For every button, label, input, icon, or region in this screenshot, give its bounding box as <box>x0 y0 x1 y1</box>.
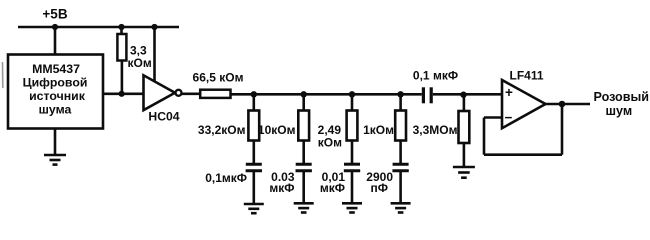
wire tap2 down <box>302 94 305 110</box>
svg-text:мкФ: мкФ <box>269 181 294 195</box>
node tap 1 dot <box>251 91 257 97</box>
wire op-amp output <box>546 103 591 106</box>
value label 10кОм <box>258 123 296 137</box>
label HC04 <box>148 110 179 124</box>
wire tap3 down <box>351 94 354 110</box>
svg-text:шума: шума <box>39 103 72 117</box>
ground symbol under MM5437 <box>44 155 66 165</box>
ground symbol under 3,3МОм <box>453 167 475 178</box>
node tap 3 dot <box>349 91 355 97</box>
svg-text:+: + <box>505 85 513 100</box>
capacitor 0.03мкФ shunt <box>296 164 312 171</box>
ground symbol branch3 <box>342 203 362 212</box>
svg-text:кОм: кОм <box>318 135 342 149</box>
wire R 3,3МОм to ground <box>463 143 466 167</box>
label MM5437 Цифровой источник шума <box>23 62 88 117</box>
capacitor 0,01мкФ shunt <box>344 164 360 171</box>
wire R2 bottom to C2 <box>302 141 305 164</box>
wire R1 bottom to C1 <box>253 141 256 164</box>
value label 33,2кОм <box>198 123 246 137</box>
svg-text:3,3МОм: 3,3МОм <box>413 123 458 137</box>
svg-text:кОм: кОм <box>128 56 152 70</box>
capacitor 0,1мкФ shunt <box>246 164 262 171</box>
node tap 4 dot <box>397 91 403 97</box>
svg-text:MM5437: MM5437 <box>32 62 80 76</box>
wire HC04 output to R 66,5кОм <box>182 93 201 96</box>
wire C1 bottom to ground <box>253 172 256 204</box>
wire feedback up to − input <box>483 118 486 155</box>
scan artifact left edge <box>2 62 4 88</box>
svg-text:шум: шум <box>606 104 633 118</box>
inverter bubble <box>176 90 182 96</box>
ground symbol branch2 <box>294 203 314 212</box>
node junction dot on +5V at HC04 supply <box>151 24 157 30</box>
svg-text:−: − <box>505 110 513 125</box>
svg-text:Розовый: Розовый <box>594 90 650 104</box>
wire MM5437 bottom to ground <box>54 129 57 156</box>
wire coupling cap to op-amp + input <box>433 93 502 96</box>
svg-text:+5В: +5В <box>42 7 67 22</box>
resistor 66,5кОм series <box>200 90 230 98</box>
wire C2 bottom to ground <box>302 172 305 203</box>
value label 3,3 кОм <box>128 44 152 70</box>
capacitor 0,1мкФ coupling (series) <box>423 87 431 103</box>
value label 2900 пФ <box>366 170 393 195</box>
svg-text:1кОм: 1кОм <box>363 123 394 137</box>
wire +5V down to HC04 supply pin <box>153 27 156 81</box>
svg-text:источник: источник <box>29 89 86 103</box>
svg-text:мкФ: мкФ <box>320 181 345 195</box>
wire R4 bottom to C4 <box>399 141 402 164</box>
capacitor 2900пФ shunt <box>392 164 408 171</box>
wire C4 bottom to ground <box>399 172 402 203</box>
node output junction dot <box>559 101 566 108</box>
resistor 3,3кОм pull-up <box>117 34 126 61</box>
wire R3,3к bottom to HC04 input node <box>121 61 124 94</box>
node junction dot at HC04 input <box>119 91 125 97</box>
svg-text:10кОм: 10кОм <box>258 123 296 137</box>
value label 0,01 мкФ <box>320 170 345 195</box>
svg-text:66,5 кОм: 66,5 кОм <box>193 71 244 85</box>
node junction dot on +5V at MM5437 <box>52 24 58 30</box>
svg-text:33,2кОм: 33,2кОм <box>198 123 246 137</box>
wire tap4 down <box>399 94 402 110</box>
pin − marker <box>505 110 513 125</box>
label +5В <box>42 7 67 22</box>
svg-text:HC04: HC04 <box>148 110 179 124</box>
wire tap1 down <box>253 94 256 110</box>
svg-text:Цифровой: Цифровой <box>23 76 88 90</box>
node junction dot on +5V at R 3,3кОм <box>118 24 124 30</box>
value label 1кОм <box>363 123 394 137</box>
value label 66,5 кОм <box>193 71 244 85</box>
wire feedback bottom run <box>484 153 562 156</box>
resistor 1кОм shunt <box>395 111 406 141</box>
label LF411 <box>510 69 544 83</box>
wire R3 bottom to C3 <box>351 141 354 164</box>
label Розовый шум output <box>594 90 650 118</box>
wire +5V down to MM5437 top <box>54 27 57 55</box>
svg-text:0,1 мкФ: 0,1 мкФ <box>413 69 458 83</box>
IC U1 MM5437 noise source box <box>8 55 103 129</box>
ground symbol branch1 <box>244 204 264 213</box>
node junction dot at op-amp input <box>460 92 466 98</box>
svg-text:пФ: пФ <box>371 181 389 195</box>
wire filter bus A <box>231 93 422 96</box>
wire node down to R 3,3МОм <box>463 94 466 111</box>
wire C3 bottom to ground <box>351 172 354 203</box>
value label 0.03 мкФ <box>269 170 294 195</box>
node tap 2 dot <box>301 91 307 97</box>
resistor 10кОм shunt <box>298 111 309 141</box>
ground symbol branch4 <box>391 203 411 212</box>
wire MM5437 output to HC04 input <box>103 93 144 96</box>
resistor 2,49кОм shunt <box>347 111 358 141</box>
svg-text:LF411: LF411 <box>510 69 544 83</box>
value label 2,49 кОм <box>318 123 342 150</box>
inverter U2 HC04 triangle <box>144 75 176 110</box>
op-amp U3 LF411 triangle <box>502 80 546 128</box>
value label 3,3МОм <box>413 123 458 137</box>
wire +5V down to R 3,3кОм top <box>120 27 123 34</box>
wire feedback into − input <box>484 116 502 119</box>
resistor 3,3МОм bias <box>459 111 470 143</box>
value label 0,1 мкФ <box>413 69 458 83</box>
net +5V rail wire <box>18 26 179 29</box>
value label 0,1мкФ <box>205 171 247 185</box>
resistor 33,2кОм shunt <box>248 111 259 141</box>
pin + marker <box>505 85 513 100</box>
svg-text:0,1мкФ: 0,1мкФ <box>205 171 247 185</box>
wire feedback down from output <box>561 104 564 155</box>
